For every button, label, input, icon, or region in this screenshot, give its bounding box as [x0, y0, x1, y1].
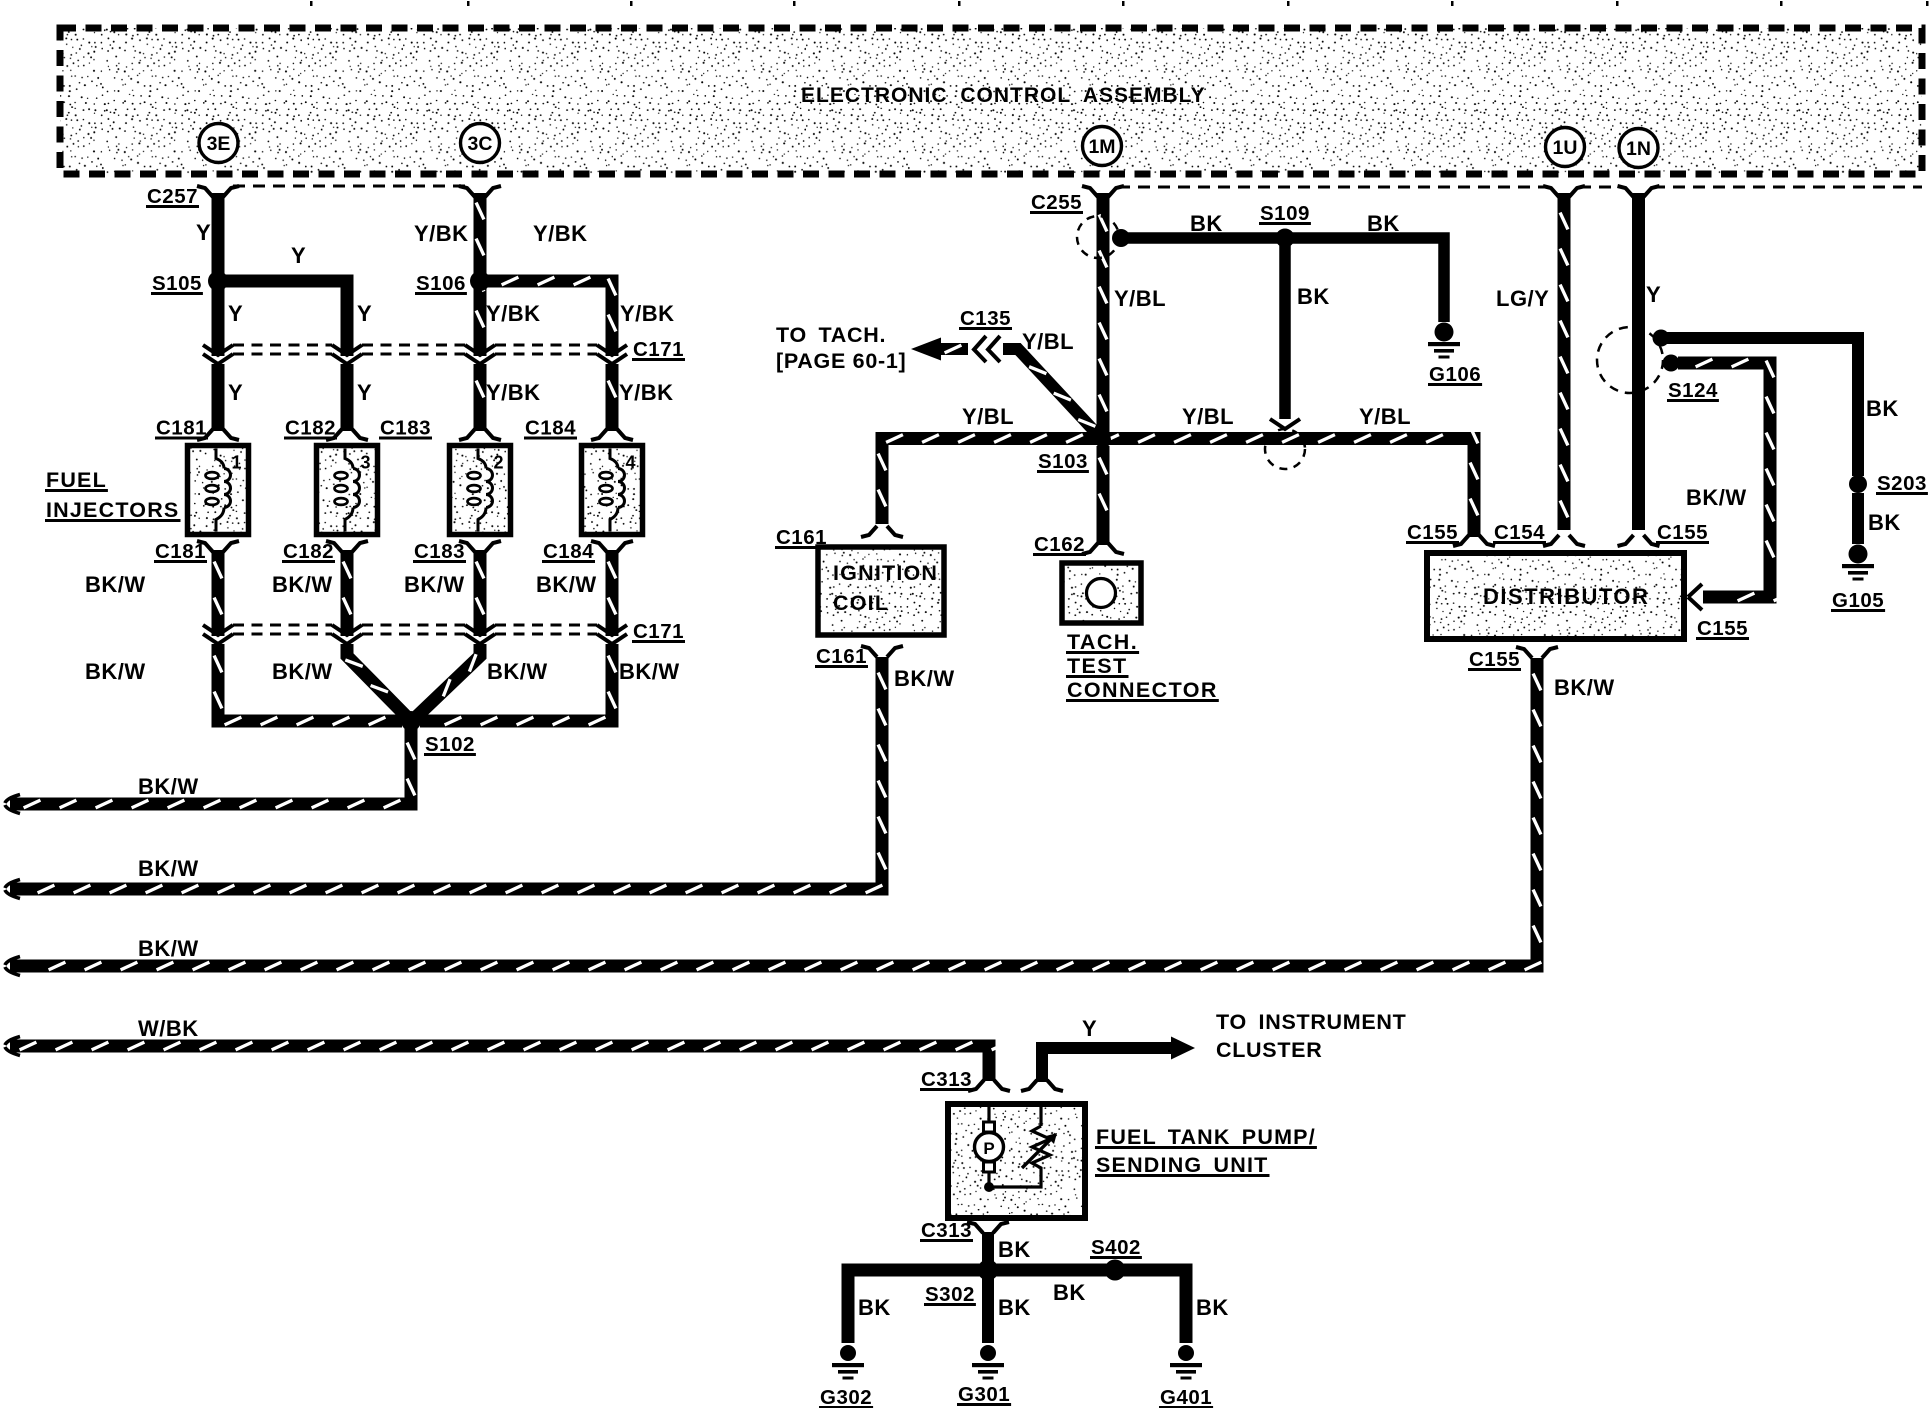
label BK/W row3 — [138, 936, 199, 961]
label SENDING UNIT — [1095, 1153, 1270, 1177]
svg-text:G302: G302 — [820, 1386, 872, 1408]
ground G401 — [1170, 1345, 1202, 1380]
wire Y col1 C171 to C181 — [212, 364, 225, 431]
inline connector C171 row2 — [203, 625, 627, 644]
label C155 bottom — [1468, 648, 1521, 671]
svg-text:C135: C135 — [960, 307, 1011, 330]
label C155 top-left — [1406, 521, 1459, 544]
svg-text:G106: G106 — [1429, 363, 1481, 386]
svg-text:BK/W: BK/W — [487, 659, 548, 684]
svg-text:BK/W: BK/W — [404, 572, 465, 597]
svg-text:3C: 3C — [468, 133, 493, 155]
wire LG/Y from 1U to C154 — [1560, 193, 1568, 530]
splice BK takeout dot at C255 — [1112, 229, 1130, 247]
label BK at C313 — [998, 1237, 1031, 1262]
connector C184 chevron above injector — [591, 429, 633, 440]
wire BK/W col4 to C171 row2 — [608, 550, 616, 636]
svg-text:COIL: COIL — [833, 591, 889, 615]
svg-text:G301: G301 — [958, 1383, 1010, 1406]
svg-text:TACH.: TACH. — [1067, 630, 1138, 654]
svg-text:TO INSTRUMENT: TO INSTRUMENT — [1216, 1010, 1406, 1034]
label Y to cluster — [1082, 1016, 1097, 1041]
label Y/BK on 3C wire — [414, 221, 469, 246]
svg-text:1M: 1M — [1088, 136, 1115, 158]
label FUEL — [45, 468, 108, 492]
svg-text:C184: C184 — [525, 417, 576, 440]
svg-text:C155: C155 — [1697, 617, 1748, 640]
wire Y to instrument cluster — [1042, 1037, 1195, 1083]
label CLUSTER — [1216, 1038, 1322, 1062]
label PAGE 60-1 — [776, 349, 906, 373]
ground G106 — [1428, 323, 1460, 359]
svg-text:G105: G105 — [1832, 589, 1884, 612]
label C154 — [1493, 521, 1546, 544]
svg-text:BK: BK — [858, 1295, 891, 1320]
label BK S302 stub — [998, 1295, 1031, 1320]
label C155 right side — [1696, 617, 1749, 640]
inline connector C171 row1 — [203, 345, 627, 364]
label TACH. — [1066, 630, 1139, 654]
svg-text:S102: S102 — [425, 733, 475, 756]
wire Y branch S105 to injector 3 column — [218, 281, 347, 356]
svg-text:Y/BL: Y/BL — [1114, 286, 1166, 311]
svg-text:FUEL TANK PUMP/: FUEL TANK PUMP/ — [1096, 1125, 1316, 1149]
wire BK/W row2 ignition coil to left edge — [10, 657, 886, 893]
svg-text:DISTRIBUTOR: DISTRIBUTOR — [1483, 584, 1649, 609]
splice S124 lower dot — [1663, 355, 1680, 372]
electronic control assembly box — [60, 28, 1922, 174]
svg-text:BK/W: BK/W — [1686, 485, 1747, 510]
fuel injector 4 — [582, 446, 643, 535]
svg-text:S402: S402 — [1091, 1236, 1141, 1259]
label S302 — [924, 1283, 976, 1306]
svg-text:C182: C182 — [285, 417, 336, 440]
svg-text:Y: Y — [357, 380, 372, 405]
svg-text:Y: Y — [1646, 282, 1661, 307]
label C171 row1 — [632, 338, 685, 361]
splice S302 — [978, 1260, 999, 1281]
svg-text:Y/BK: Y/BK — [414, 221, 469, 246]
splice S402 — [1105, 1260, 1126, 1281]
label BK/W col2 — [272, 572, 333, 597]
svg-text:Y/BK: Y/BK — [486, 301, 541, 326]
svg-text:BK: BK — [1053, 1280, 1086, 1305]
svg-text:Y/BK: Y/BK — [486, 380, 541, 405]
label S105 — [151, 272, 203, 295]
ECA pin circle 3C — [461, 124, 500, 163]
svg-text:BK: BK — [1297, 284, 1330, 309]
splice S106 — [470, 271, 490, 291]
label Y/BL right segment — [1359, 404, 1411, 429]
wire BK/W row3 distributor to left edge — [10, 658, 1541, 970]
connector C135 chevrons — [974, 336, 1000, 362]
svg-text:BK/W: BK/W — [894, 666, 955, 691]
ground G302 — [832, 1345, 864, 1380]
wire BK ground bus — [848, 1270, 1186, 1343]
label C184 above injector — [524, 417, 577, 440]
label C135 — [959, 307, 1012, 330]
label FUEL TANK PUMP/ — [1095, 1125, 1317, 1149]
fuel injector 3 — [317, 446, 378, 535]
svg-text:CLUSTER: CLUSTER — [1216, 1038, 1322, 1062]
label BK/W at C161 — [894, 666, 955, 691]
wire BK S203 to G105 — [1852, 493, 1864, 544]
wire W/BK row4 fuel pump to left edge — [10, 1042, 1008, 1081]
label C183 above injector — [379, 417, 432, 440]
svg-text:C162: C162 — [1034, 533, 1085, 556]
svg-text:S106: S106 — [416, 272, 466, 295]
label S402 — [1090, 1236, 1142, 1259]
wire BK/W col2 to C171 row2 — [343, 550, 351, 636]
wire Y/BL from 1M to S103 — [1099, 193, 1107, 434]
label S106 — [415, 272, 467, 295]
splice S203 — [1849, 475, 1867, 493]
svg-text:BK: BK — [998, 1237, 1031, 1262]
splice S109 — [1276, 229, 1295, 248]
svg-text:C257: C257 — [147, 185, 198, 208]
wire BK/W col3 to C171 row2 — [476, 550, 484, 636]
ignition coil box — [818, 547, 944, 635]
wire BK/W col1 to S102 bus — [214, 644, 402, 725]
wire BK/W col2 diagonal to S102 — [345, 644, 409, 719]
label S124 — [1667, 379, 1719, 402]
svg-text:TO TACH.: TO TACH. — [776, 323, 886, 347]
svg-text:1U: 1U — [1553, 137, 1578, 159]
label BK/W col1 — [85, 572, 146, 597]
wire BK/W row1 S102 to left edge — [10, 727, 415, 808]
label S103 — [1037, 450, 1089, 473]
svg-text:LG/Y: LG/Y — [1496, 286, 1549, 311]
connector C181 chevron above injector — [197, 429, 239, 440]
ECA pin circle 1N — [1619, 129, 1658, 168]
connector C155 chevron below distributor — [1516, 647, 1558, 658]
label BK right of S109 — [1367, 211, 1400, 236]
label Y col2 lower — [357, 380, 372, 405]
svg-text:C155: C155 — [1657, 521, 1708, 544]
svg-text:Y/BL: Y/BL — [1359, 404, 1411, 429]
label C161 above coil — [775, 526, 828, 549]
connector C161 chevron above ignition coil — [861, 526, 903, 537]
label C313 lower — [920, 1219, 973, 1242]
label BK on S109 vertical — [1297, 284, 1330, 309]
label C182 above injector — [284, 417, 337, 440]
svg-text:BK: BK — [1866, 396, 1899, 421]
svg-text:2: 2 — [494, 453, 504, 473]
label C182 below injector — [282, 540, 335, 563]
svg-text:INJECTORS: INJECTORS — [46, 498, 179, 522]
label BK/W col4 lower — [619, 659, 680, 684]
svg-text:C184: C184 — [543, 540, 594, 563]
svg-text:S124: S124 — [1668, 379, 1718, 402]
label CONNECTOR — [1066, 678, 1219, 702]
svg-text:ELECTRONIC CONTROL ASSEMBLY: ELECTRONIC CONTROL ASSEMBLY — [801, 84, 1206, 107]
connector chevron at ECA pin 1U — [1543, 186, 1585, 197]
arrow end row1 — [5, 795, 20, 814]
svg-text:S105: S105 — [152, 272, 202, 295]
svg-text:[PAGE 60-1]: [PAGE 60-1] — [776, 349, 906, 373]
label Y/BK col4 lower — [619, 380, 674, 405]
svg-text:C255: C255 — [1031, 191, 1082, 214]
svg-text:W/BK: W/BK — [138, 1016, 199, 1041]
svg-text:BK/W: BK/W — [536, 572, 597, 597]
svg-text:Y: Y — [1082, 1016, 1097, 1041]
connector C155 chevron right side of distributor — [1688, 584, 1702, 610]
label Y col2 — [357, 301, 372, 326]
svg-text:C181: C181 — [155, 540, 206, 563]
connector C182 chevron below injector — [326, 541, 368, 552]
label Y/BK col3 lower — [486, 380, 541, 405]
svg-text:BK: BK — [1190, 211, 1223, 236]
svg-text:Y: Y — [291, 243, 306, 268]
label BK/W col2 lower — [272, 659, 333, 684]
svg-text:Y/BL: Y/BL — [1182, 404, 1234, 429]
connector C161 chevron below ignition coil — [861, 646, 903, 657]
svg-text:TEST: TEST — [1067, 654, 1128, 678]
ground G105 — [1842, 545, 1874, 581]
svg-text:BK: BK — [998, 1295, 1031, 1320]
connector C255 chevron at ECA pin 1M — [1082, 186, 1124, 197]
label C162 — [1033, 533, 1086, 556]
svg-text:SENDING UNIT: SENDING UNIT — [1096, 1153, 1269, 1177]
svg-text:Y/BL: Y/BL — [962, 404, 1014, 429]
svg-text:BK/W: BK/W — [138, 936, 199, 961]
label C183 below injector — [413, 540, 466, 563]
label C161 below coil — [815, 645, 868, 668]
svg-text:1: 1 — [232, 453, 242, 473]
svg-text:C181: C181 — [156, 417, 207, 440]
svg-text:C313: C313 — [921, 1068, 972, 1091]
svg-text:BK/W: BK/W — [85, 572, 146, 597]
wire BK/W col1 to C171 row2 — [214, 550, 222, 636]
svg-text:Y: Y — [357, 301, 372, 326]
label LG/Y — [1496, 286, 1549, 311]
svg-text:1N: 1N — [1626, 138, 1651, 160]
svg-text:S109: S109 — [1260, 202, 1310, 225]
label BK/W col1 lower — [85, 659, 146, 684]
label INJECTORS — [45, 498, 181, 522]
label Y/BK col3 — [486, 301, 541, 326]
label C155 top-right — [1656, 521, 1709, 544]
svg-text:IGNITION: IGNITION — [833, 561, 938, 585]
svg-text:P: P — [983, 1139, 994, 1158]
wire Y/BK col3 C171 to C183 — [476, 364, 484, 431]
connector chevron at ECA pin 3C — [459, 186, 501, 197]
label C171 row2 — [632, 620, 685, 643]
label BK right stub — [1196, 1295, 1229, 1320]
label ELECTRONIC CONTROL ASSEMBLY — [801, 84, 1206, 107]
svg-text:BK: BK — [1868, 510, 1901, 535]
svg-text:Y: Y — [196, 220, 211, 245]
label BK bus — [1053, 1280, 1086, 1305]
wire BK S109 net — [1118, 238, 1444, 322]
wire Y/BK col4 C171 to C184 — [608, 364, 616, 431]
connector C184 chevron below injector — [591, 541, 633, 552]
svg-text:C182: C182 — [283, 540, 334, 563]
ECA pin circle 1U — [1546, 128, 1585, 167]
label Y/BL on 1M wire — [1114, 286, 1166, 311]
connector C313 chevron below pump — [967, 1222, 1009, 1233]
svg-text:Y/BK: Y/BK — [533, 221, 588, 246]
svg-text:C171: C171 — [633, 338, 684, 361]
wire Y/BL to C135 arrow — [911, 338, 968, 361]
svg-text:Y: Y — [228, 301, 243, 326]
svg-text:4: 4 — [626, 453, 636, 473]
label Y on C257 wire — [196, 220, 211, 245]
label BK left of S109 — [1190, 211, 1223, 236]
svg-text:C313: C313 — [921, 1219, 972, 1242]
splice S124 upper dot — [1653, 330, 1670, 347]
svg-text:C183: C183 — [380, 417, 431, 440]
label BK/W col3 — [404, 572, 465, 597]
svg-text:G401: G401 — [1160, 1386, 1212, 1408]
label Y/BL mid segment — [1182, 404, 1234, 429]
label BK/W col4 — [536, 572, 597, 597]
label S109 — [1259, 202, 1311, 225]
fuel injector 1 — [188, 446, 249, 535]
tach test connector box — [1062, 563, 1141, 623]
connector C182 chevron above injector — [326, 429, 368, 440]
label Y on 1N wire — [1646, 282, 1661, 307]
splice S102 — [401, 711, 421, 731]
svg-text:BK: BK — [1367, 211, 1400, 236]
svg-text:Y/BK: Y/BK — [619, 380, 674, 405]
wire Y/BK from 3C to C171 row1 — [476, 193, 484, 356]
dashed circle at S109 junction — [1265, 429, 1305, 469]
label C255 — [1030, 191, 1083, 214]
wire BK S302 to G301 — [982, 1270, 994, 1343]
label C181 above injector — [155, 417, 208, 440]
label BK/W col3 lower — [487, 659, 548, 684]
label G106 — [1428, 363, 1482, 386]
svg-text:3: 3 — [361, 453, 371, 473]
svg-text:BK/W: BK/W — [272, 659, 333, 684]
connector C183 chevron below injector — [459, 541, 501, 552]
wire Y col2 C171 to C182 — [341, 364, 354, 431]
connector C154 chevron above distributor — [1543, 535, 1585, 546]
connector C183 chevron above injector — [459, 429, 501, 440]
connector C155 chevron right above distributor — [1618, 535, 1660, 546]
label BK/W row2 — [138, 856, 199, 881]
connector C257 chevron at ECA — [197, 186, 239, 197]
svg-text:C155: C155 — [1469, 648, 1520, 671]
svg-text:3E: 3E — [207, 133, 231, 155]
wire Y/BK branch S106 to injector 4 column — [480, 277, 616, 356]
label BK above S203 — [1866, 396, 1899, 421]
label BK/W row1 — [138, 774, 199, 799]
svg-text:BK: BK — [1196, 1295, 1229, 1320]
label C184 below injector — [542, 540, 595, 563]
svg-text:C183: C183 — [414, 540, 465, 563]
svg-text:C171: C171 — [633, 620, 684, 643]
connector chevron at ECA pin 1N — [1618, 186, 1660, 197]
connector C313 chevron right — [1021, 1080, 1063, 1091]
label BK left stub — [858, 1295, 891, 1320]
svg-text:C154: C154 — [1494, 521, 1545, 544]
svg-text:C161: C161 — [816, 645, 867, 668]
label G105 — [1831, 589, 1885, 612]
svg-text:S302: S302 — [925, 1283, 975, 1306]
wire Y from C257 to C171 row1 — [212, 193, 225, 356]
label C313 upper — [920, 1068, 973, 1091]
svg-text:BK/W: BK/W — [138, 856, 199, 881]
fuel tank pump/sending unit — [948, 1104, 1085, 1218]
label C181 below injector — [154, 540, 207, 563]
svg-text:C155: C155 — [1407, 521, 1458, 544]
label Y col1 lower — [228, 380, 243, 405]
wire BK from S109 down to Y/BL junction — [1279, 238, 1291, 419]
ECA pin circle 1M — [1083, 127, 1122, 166]
svg-text:BK/W: BK/W — [1554, 675, 1615, 700]
splice S105 — [208, 271, 228, 291]
chevron at BK to Y/BL junction — [1270, 419, 1300, 429]
svg-text:FUEL: FUEL — [46, 468, 107, 492]
label G302 — [819, 1386, 873, 1408]
label W/BK row4 — [138, 1016, 199, 1041]
label TEST — [1066, 654, 1129, 678]
ECA pin circle 3E — [199, 124, 238, 163]
connector C257 dashed line — [233, 185, 465, 188]
svg-text:Y: Y — [228, 380, 243, 405]
svg-text:CONNECTOR: CONNECTOR — [1067, 678, 1218, 702]
svg-text:BK/W: BK/W — [138, 774, 199, 799]
label BK below S203 — [1868, 510, 1901, 535]
label Y/BK col4 — [620, 301, 675, 326]
connector C162 chevron — [1082, 543, 1124, 554]
label Y/BL at C135 — [1022, 329, 1074, 354]
arrow end row2 — [5, 880, 20, 899]
wire BK C313 to S302 — [982, 1232, 994, 1266]
svg-text:Y/BK: Y/BK — [620, 301, 675, 326]
wire BK/W col3 diagonal to S102 — [414, 644, 480, 719]
wire BK/W col4 to S102 bus — [420, 644, 616, 725]
label Y col1 — [228, 301, 243, 326]
label G301 — [957, 1383, 1011, 1406]
fuel injector 2 — [450, 446, 511, 535]
wire BK/W S124 to distributor — [1678, 359, 1790, 601]
label Y/BL left segment — [962, 404, 1014, 429]
wire Y/BL horizontal S103 net — [878, 427, 1478, 537]
label Y/BK on S106 branch — [533, 221, 588, 246]
arrow end row3 — [5, 957, 20, 976]
label Y on S105 branch — [291, 243, 306, 268]
label C257 — [146, 185, 199, 208]
connector C313 chevron left — [968, 1080, 1010, 1091]
dashed circle at C255 — [1077, 216, 1119, 258]
wire Y S124 to S203 — [1663, 338, 1858, 476]
connector C181 chevron below injector — [197, 541, 239, 552]
connector C155 chevron left above distributor — [1453, 535, 1495, 546]
wire Y from 1N to C155 — [1632, 193, 1645, 530]
wire Y/BL C135 to S103 diagonal — [1003, 349, 1098, 435]
svg-text:S203: S203 — [1877, 472, 1927, 495]
ground G301 — [972, 1345, 1004, 1380]
connector C255 dashed line — [1118, 186, 1922, 189]
arrow end row4 — [5, 1037, 20, 1056]
svg-text:BK/W: BK/W — [272, 572, 333, 597]
dashed circle at S124 — [1597, 327, 1663, 393]
svg-text:S103: S103 — [1038, 450, 1088, 473]
svg-text:Y/BL: Y/BL — [1022, 329, 1074, 354]
label TO INSTRUMENT — [1216, 1010, 1406, 1034]
label S203 — [1876, 472, 1928, 495]
splice S103 — [1095, 432, 1111, 448]
distributor box — [1427, 553, 1684, 639]
svg-text:BK/W: BK/W — [619, 659, 680, 684]
label TO TACH. — [776, 323, 886, 347]
svg-text:BK/W: BK/W — [85, 659, 146, 684]
label BK/W below distributor — [1554, 675, 1615, 700]
label S102 — [424, 733, 476, 756]
